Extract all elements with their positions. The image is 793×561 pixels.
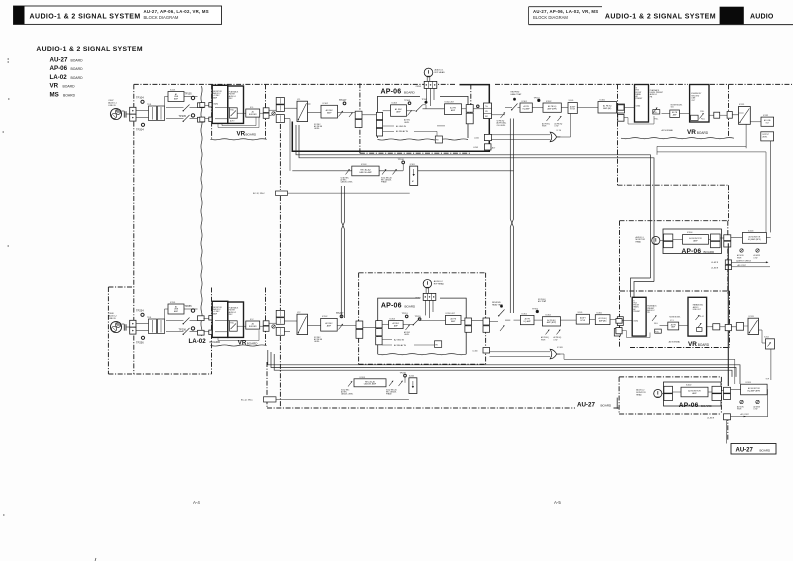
svg-text:IC204: IC204 [748, 230, 754, 232]
svg-text:BOARD: BOARD [210, 340, 222, 344]
svg-text:LL201: LL201 [474, 137, 479, 139]
control RV4 playback preset (thick) [632, 297, 646, 336]
svg-text:AU-27: AU-27 [50, 56, 68, 63]
block VR bottom monitor select (thick) [212, 301, 228, 337]
svg-text:A2 RELAY IN: A2 RELAY IN [394, 344, 406, 347]
torn edge VR top-right bottom [621, 138, 734, 139]
wire thick REC bus [292, 85, 489, 152]
switch rec mute bottom [413, 319, 446, 326]
svg-text:MS: MS [50, 91, 59, 98]
amplifier IC209 A2 MONITOR EQ AMP [731, 379, 770, 417]
svg-text:FULL: FULL [655, 119, 659, 121]
label A2 GND IN / A2 RELAY IN [382, 338, 436, 346]
test point TP256 [136, 336, 145, 344]
svg-text:BOARD: BOARD [601, 404, 613, 408]
svg-text:VR: VR [50, 83, 59, 90]
svg-text:TP255: TP255 [185, 305, 193, 308]
label S2 rec adj [314, 124, 323, 130]
svg-text:IC205: IC205 [409, 376, 414, 378]
test point TP206 [179, 327, 195, 332]
label VR BOARD bottom-left [238, 339, 259, 346]
torn edge VR board top-left bottom [210, 139, 266, 140]
amplifier IC602 A2 MONITOR AMP [673, 385, 709, 397]
amplifier IC303 A1 REC AMP [383, 103, 407, 117]
amplifier IC202 A2 REC AMP [321, 316, 338, 331]
svg-text:AP-06: AP-06 [679, 402, 699, 409]
connector pins boundary bottom right [483, 318, 498, 332]
svg-text:LA-02: LA-02 [189, 338, 207, 345]
wire bus pair drop to VR bottom connector [631, 278, 655, 297]
svg-text:A2 NORMAL: A2 NORMAL [669, 341, 681, 344]
svg-text:AMP: AMP [451, 320, 456, 323]
svg-text:CN303: CN303 [416, 86, 422, 88]
relay PB SW bottom [435, 341, 442, 348]
label AP-06 BOARD monitor-2 [679, 402, 713, 409]
test point TP107 [339, 99, 347, 105]
svg-text:UL-M4 R: UL-M4 R [707, 418, 715, 420]
op-amp IC-2 A2 BUFFER [246, 319, 260, 329]
test point TP205 [179, 114, 195, 118]
svg-text:IC131: IC131 [739, 104, 745, 106]
board boundary right column x=728.5 [728, 84, 730, 220]
wire VR bottom internal [215, 320, 263, 340]
label playback preset audio-2 [647, 305, 657, 315]
connector pins AP-06 right [462, 105, 484, 124]
svg-text:IC 3: IC 3 [670, 320, 673, 322]
svg-text:IC 10: IC 10 [557, 130, 562, 132]
control RV2 audio line out (thick) [688, 297, 707, 336]
svg-text:BLOCK DIAGRAM: BLOCK DIAGRAM [533, 15, 568, 20]
node LL300 tap [473, 348, 490, 354]
svg-text:TP307: TP307 [422, 99, 428, 101]
svg-text:LOW: LOW [554, 339, 558, 341]
test point TP254 [136, 309, 144, 317]
amplifier IC-3 A2 PB AMP [660, 317, 689, 330]
svg-text:S1-05: S1-05 [569, 100, 574, 102]
svg-text:ECVR: ECVR [580, 320, 585, 322]
svg-text:LEVEL: LEVEL [314, 128, 320, 130]
trimmer S2 PB EQ [492, 112, 507, 126]
svg-text:IC352+357: IC352+357 [446, 313, 455, 315]
svg-text:T201: T201 [147, 317, 151, 319]
svg-text:TP207: TP207 [336, 312, 344, 315]
board boundary VR top-left right vertical x=265.5 [265, 84, 267, 139]
svg-text:AMP (BPF): AMP (BPF) [547, 321, 557, 324]
connector pins AP-06 bottom right [461, 318, 483, 332]
label AP-06 BOARD monitor-1 [682, 248, 716, 255]
wire to IC1 switch [284, 108, 297, 171]
amplifier IC352+357 A2 PB AMP [446, 313, 462, 324]
connector column monitor-1 [720, 235, 731, 247]
svg-text:RL-41: RL-41 [700, 316, 704, 318]
twisted pair mid x=511 [510, 119, 513, 314]
svg-text:IC304: IC304 [687, 232, 693, 234]
trimmers A1 PB EQ high/low [542, 116, 563, 127]
wire head drive [423, 105, 445, 109]
pots A2 monitor high low [737, 400, 761, 410]
svg-text:VR: VR [687, 129, 696, 136]
label playback level preset audio-1 [650, 89, 664, 99]
audio-2 monitor head [636, 389, 662, 398]
connector column monitor-2 [721, 387, 730, 399]
svg-text:AMP: AMP [451, 109, 456, 112]
label VR BOARD bottom-right [688, 341, 710, 348]
svg-text:AUDIO-1 & 2 SIGNAL SYSTEM: AUDIO-1 & 2 SIGNAL SYSTEM [605, 14, 716, 21]
trimmer cancel phase top [381, 169, 397, 183]
svg-text:HEAD: HEAD [636, 241, 642, 244]
svg-text:AUDIO-1: AUDIO-1 [435, 69, 445, 72]
svg-text:IC132: IC132 [763, 115, 768, 117]
amplifier IC302+307 A1 PB AMP [445, 102, 462, 115]
svg-text:CANCEL AMP: CANCEL AMP [364, 383, 377, 386]
connector pins x=276 bottom [276, 310, 284, 335]
block IC205 cancel mixer bottom [409, 376, 417, 394]
label AP-06 BOARD top [381, 88, 416, 95]
svg-text:VR: VR [238, 339, 247, 346]
svg-text:AMP: AMP [174, 310, 179, 313]
svg-text:AMP (BPF): AMP (BPF) [548, 107, 558, 110]
svg-text:LINE OUT: LINE OUT [693, 309, 702, 311]
svg-text:AMP: AMP [396, 111, 401, 114]
svg-text:TP105: TP105 [185, 93, 193, 96]
audio-1 R/P head [416, 68, 446, 106]
svg-text:AU-27, AP-06, LA-02, VR, MS: AU-27, AP-06, LA-02, VR, MS [144, 9, 209, 14]
svg-text:IC352: IC352 [546, 315, 552, 317]
block output level [761, 132, 774, 233]
header right: title block [529, 7, 793, 25]
twisted pair left x=342 [341, 186, 344, 318]
control RV3 playback level preset (thick) [635, 85, 649, 123]
amplifier IC103 REC A1-A2 CANCEL AMP [352, 164, 379, 176]
svg-text:VR: VR [237, 130, 246, 137]
svg-text:IC 303: IC 303 [557, 347, 563, 349]
label AP-06 BOARD bottom [381, 303, 416, 310]
test point TP104 [136, 96, 144, 104]
trimmer A1 rec level AP [404, 110, 415, 124]
margin marks [3, 59, 97, 561]
svg-text:IC202: IC202 [322, 316, 328, 318]
svg-text:AP-06: AP-06 [50, 65, 68, 72]
trimmers A2 PB EQ high/low [541, 330, 562, 342]
block IC252 output level [759, 330, 775, 380]
svg-text:HEAD TRAP: HEAD TRAP [511, 93, 523, 96]
svg-text:BUFFER: BUFFER [249, 114, 257, 116]
wire cancel cluster stubs [403, 164, 410, 171]
test point TP355 [415, 316, 422, 321]
connector pins LA-02 out bottom [198, 316, 210, 335]
label AU-27 BOARD boxed [731, 444, 776, 455]
header left: title block [14, 6, 222, 24]
svg-text:AUDIO-2: AUDIO-2 [434, 280, 444, 283]
svg-text:LEVEL: LEVEL [404, 122, 409, 124]
svg-text:BOARD: BOARD [63, 85, 76, 89]
connector column T.A 5W [484, 103, 492, 119]
svg-text:TP256: TP256 [136, 341, 144, 345]
trimmer PULL A1 preset [653, 108, 660, 121]
connector pins monitor-1 out [709, 234, 721, 248]
test point TP301 [532, 97, 543, 107]
torn edge left of VR sections x=201.5 [201, 86, 202, 336]
wire to IC2 switch [284, 321, 297, 331]
svg-text:AMP: AMP [174, 98, 179, 101]
trimmer cancel phase bottom [386, 381, 403, 396]
svg-text:BOARD: BOARD [71, 58, 84, 62]
label S2 rec adj bottom [314, 337, 323, 343]
svg-text:IC303: IC303 [392, 103, 398, 105]
svg-text:VR: VR [688, 341, 697, 348]
wire bottom bus lines [268, 350, 740, 384]
page number A-4 [193, 500, 200, 505]
trimmer A1 rec cal [349, 113, 353, 118]
connector pins VR4 in [616, 319, 650, 338]
block VR bottom playback filter (thick) [228, 302, 244, 337]
pot A1 rec level [269, 110, 277, 115]
svg-text:BUFFER: BUFFER [249, 326, 257, 328]
svg-text:5W: 5W [485, 111, 488, 113]
switch S2-1 rec/line [166, 318, 198, 335]
board AP-06 monitor-1 inner outline [663, 229, 721, 254]
trimmer A1 rec level [338, 111, 347, 117]
svg-text:IC302+307: IC302+307 [445, 102, 454, 104]
op-amp IC-1 A1 BUFFER [246, 107, 260, 117]
svg-text:AMP(AV): AMP(AV) [599, 319, 607, 322]
svg-text:IC351: IC351 [522, 313, 528, 315]
node A1 cancel feed [241, 397, 409, 402]
label AU-27 BOARD rail [577, 398, 617, 409]
svg-text:AMP: AMP [693, 239, 698, 242]
block VR playback filter (thick) [228, 86, 244, 123]
svg-text:AP-06: AP-06 [381, 303, 402, 310]
connector pins x=355 [346, 111, 377, 127]
svg-text:AMP (AV): AMP (AV) [603, 107, 611, 110]
svg-text:LINE IN: LINE IN [108, 318, 116, 320]
connector pins VR board in [200, 103, 205, 122]
svg-text:BOARD: BOARD [246, 132, 258, 136]
svg-text:CEL LEVEL: CEL LEVEL [497, 125, 506, 127]
gate IC303 mute bottom [490, 347, 735, 384]
board boundary AU-27 rail [267, 362, 619, 408]
gate IC10 mute [492, 114, 571, 142]
amplifier IC203 REC A2-A1 CANCEL AMP [354, 377, 386, 387]
svg-text:BOARD: BOARD [63, 93, 76, 97]
node A2 cancel feed [253, 191, 410, 195]
svg-text:AP-06: AP-06 [682, 248, 702, 255]
svg-text:HEAD: HEAD [636, 393, 642, 396]
board boundary VR top-right box [618, 84, 729, 185]
test point TP204 [136, 123, 145, 131]
wire IC131 return lines [657, 146, 766, 232]
svg-text:UL-M2 R: UL-M2 R [711, 262, 719, 264]
svg-text:AU-27: AU-27 [577, 402, 595, 409]
test point TP352 [532, 308, 542, 320]
svg-text:EQ AMP (BPF): EQ AMP (BPF) [748, 238, 761, 241]
switch IC2 line/rec select bottom [297, 312, 321, 334]
label LA-02 BOARD [189, 338, 222, 345]
trimmers in line out [696, 315, 704, 331]
connector pins x=276 [276, 98, 284, 123]
svg-text:IC602: IC602 [686, 385, 692, 387]
svg-text:BOARD: BOARD [71, 76, 84, 80]
svg-text:A-INPUT CHECK: A-INPUT CHECK [736, 259, 751, 262]
svg-text:IC101: IC101 [410, 164, 415, 166]
amplifier IC102 A1 REC AMP [321, 103, 338, 118]
svg-text:LOW: LOW [754, 409, 758, 411]
switch PULL audio-1 rec [230, 108, 238, 123]
control RV1 record line out (thick) [690, 85, 709, 123]
board boundary AP-06 monitor-1 box [620, 221, 730, 348]
audio-1 monitor head [636, 236, 660, 245]
svg-text:NOISE MODEL: NOISE MODEL [669, 317, 680, 319]
trimmer A2 rec level AP [403, 325, 412, 336]
block IC101 cancel mixer [410, 164, 418, 186]
connector pin VR4 out [707, 324, 737, 331]
svg-text:A-4: A-4 [193, 500, 200, 505]
connector pins LA-02 out [198, 103, 210, 122]
wire cancel bottom stubs [386, 377, 405, 383]
svg-text:BOARD: BOARD [701, 404, 713, 408]
connector pins VR bottom-right in [614, 317, 623, 336]
switch IC131 output select [739, 104, 762, 148]
connector pins x=356 bottom [346, 321, 376, 338]
page number A-5 [554, 500, 561, 505]
board boundary: top dash-dot rail y=84.4 [134, 83, 792, 85]
label VR BOARD top-right [687, 129, 709, 136]
trimmer cancel level top [341, 169, 353, 183]
amplifier IC201 A2 LINE AMP [165, 302, 198, 319]
connector pins VR bottom boundary [209, 316, 215, 335]
board boundary mid vertical x=280.4 [279, 124, 281, 408]
svg-text:BOARD: BOARD [698, 343, 710, 347]
svg-text:LOW: LOW [754, 257, 758, 259]
connector pins monitor-2 out [708, 386, 721, 400]
svg-text:TP107: TP107 [339, 99, 347, 102]
board boundary AP-06 bottom box [359, 273, 486, 364]
svg-text:PULL: PULL [700, 111, 704, 113]
svg-text:BOARD: BOARD [704, 250, 716, 254]
svg-text:FULL: FULL [654, 323, 658, 325]
relay PB SW [435, 126, 445, 143]
svg-text:IC355: IC355 [597, 312, 603, 314]
svg-text:PULL: PULL [653, 112, 657, 114]
svg-text:IC301: IC301 [522, 101, 528, 103]
wire cancel link y=171 [292, 170, 513, 172]
svg-text:AMP: AMP [692, 392, 697, 395]
svg-text:IC305: IC305 [600, 99, 606, 101]
amplifier IC353 A2 REC AMP [382, 318, 403, 328]
svg-text:A2 GND IN: A2 GND IN [394, 338, 405, 341]
board boundary LA-02 bottom box [108, 287, 211, 374]
switch REV/FWD head trap [505, 92, 522, 111]
svg-text:CANCEL AMP: CANCEL AMP [359, 171, 372, 174]
svg-text:TP254: TP254 [136, 309, 144, 313]
svg-text:CN(R): CN(R) [636, 105, 641, 107]
svg-text:S21: S21 [671, 107, 674, 109]
svg-text:TP206: TP206 [179, 328, 187, 331]
amplifier IC351 A2 PB EQ AMP [505, 313, 534, 324]
amplifier A1 PB AMP [662, 110, 690, 117]
svg-text:EQ AMP (BPF): EQ AMP (BPF) [748, 389, 761, 392]
svg-text:BOARD: BOARD [760, 449, 772, 453]
svg-text:AUDIO-1 & 2 SIGNAL SYSTEM: AUDIO-1 & 2 SIGNAL SYSTEM [36, 46, 142, 53]
svg-text:CN353: CN353 [415, 298, 421, 300]
svg-text:PRESET: PRESET [636, 98, 643, 100]
svg-text:PULL: PULL [230, 110, 234, 112]
svg-text:TP204: TP204 [136, 128, 144, 132]
svg-text:CN(R): CN(R) [213, 104, 218, 106]
trimmer A2 rec level [337, 324, 346, 330]
svg-text:LEVEL: LEVEL [314, 341, 320, 343]
connector pins monitor-1 in [660, 234, 673, 248]
label A2 NORMAL [669, 341, 681, 344]
amplifier IC204 A1 MONITOR EQ AMP [731, 230, 771, 243]
connector pins AP-06 bottom left [376, 321, 382, 345]
svg-text:AU-27, AP-06, LA-02, VR, MS: AU-27, AP-06, LA-02, VR, MS [533, 9, 598, 14]
svg-text:EQ AMP: EQ AMP [523, 107, 531, 110]
test point TP351 [402, 313, 409, 318]
svg-text:A1 RELAY IN: A1 RELAY IN [396, 130, 408, 133]
switch PULL audio-2 rec [230, 321, 238, 331]
connector pins VR right edge [263, 108, 269, 118]
wire bus pair upper [296, 125, 654, 282]
node UL-M4 A2 cont [707, 413, 768, 443]
amplifier IC132 line out [761, 115, 774, 126]
amplifier IC305 A1 PB EQ AMP AV [577, 99, 616, 113]
svg-text:BOARD: BOARD [71, 67, 84, 71]
board boundary VR top-left vertical x=211.6 [211, 84, 213, 139]
connector pin VR right out [709, 112, 744, 119]
label A1 GND IN / A1 RELAY IN [383, 125, 437, 136]
pot A2 rec level [269, 323, 277, 328]
svg-text:AMP: AMP [327, 325, 332, 328]
svg-text:A2 CONT: A2 CONT [741, 413, 750, 416]
trimmer PULL A2 preset [652, 315, 661, 333]
audio-2 R/P head [415, 280, 445, 319]
test point TP108 [398, 159, 405, 164]
svg-text:BOARD: BOARD [404, 90, 416, 94]
node UL-M2 outputs [711, 243, 770, 386]
test point TP208 [400, 372, 407, 377]
transformer T101 [147, 104, 165, 121]
label VR BOARD top-left [237, 130, 258, 137]
block IC-08 line out pot [691, 111, 705, 121]
test point TP255 [185, 305, 195, 312]
amplifier IC101 A1 LINE AMP [165, 90, 198, 106]
connector pin after VR4 [736, 323, 743, 331]
connector pins AP-06 left [376, 112, 382, 136]
svg-text:AUDIO: AUDIO [750, 14, 774, 21]
connector pins VR right board in [618, 105, 654, 124]
board boundary AP-06 monitor-2 box [619, 377, 721, 414]
svg-text:A-5: A-5 [554, 500, 561, 505]
svg-text:TP104: TP104 [136, 96, 144, 100]
connector CN48 AUDIO-2 LINE IN [108, 313, 148, 334]
svg-text:BOARD: BOARD [405, 305, 417, 309]
svg-text:ECVR: ECVR [570, 109, 575, 111]
connector pins VR bottom right edge [263, 321, 269, 332]
block VR monitor select (thick) [212, 85, 228, 123]
connector pins monitor-2 in [662, 386, 673, 400]
label A1 NORMAL [662, 129, 674, 132]
svg-text:A1 GND IN: A1 GND IN [396, 125, 407, 128]
connector pin x=617 [617, 104, 625, 113]
connector CN47 AUDIO-1 LINE IN [108, 100, 148, 121]
board AP-06 top inner outline [378, 96, 469, 140]
amplifier IC355 A2 PB EQ AMP AV [589, 312, 617, 324]
svg-text:BC-12, 3W-C: BC-12, 3W-C [253, 193, 265, 195]
switch S1-1 rec/line [166, 105, 198, 122]
svg-text:PULL: PULL [230, 323, 234, 325]
svg-text:CN(R): CN(R) [633, 320, 638, 322]
